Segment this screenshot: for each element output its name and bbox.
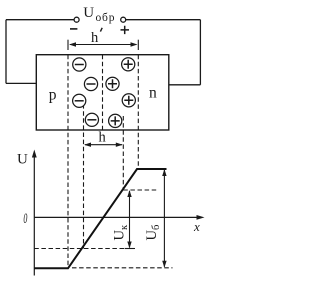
svg-text:U: U bbox=[83, 5, 94, 21]
wire left bottom to p contact bbox=[6, 82, 36, 84]
dashed line h left boundary bbox=[83, 97, 85, 249]
acceptor circle row4 bbox=[85, 113, 98, 126]
svg-text:U: U bbox=[17, 152, 28, 168]
acceptor circle row3 bbox=[73, 94, 86, 107]
dashed line junction centre bbox=[102, 55, 104, 132]
dashed line h right boundary bbox=[122, 116, 124, 190]
acceptor circle row1 bbox=[73, 58, 86, 71]
label Uk rotated bbox=[112, 224, 131, 240]
terminal minus circle bbox=[74, 17, 79, 22]
dimension arrow Uk bbox=[125, 190, 135, 249]
minus sign at left terminal bbox=[70, 28, 77, 30]
dashed line h' right boundary bbox=[137, 55, 139, 169]
semiconductor body rectangle bbox=[36, 55, 169, 130]
wire top-left horizontal bbox=[6, 19, 74, 21]
tick h' left above body bbox=[67, 40, 69, 50]
svg-text:h: h bbox=[99, 130, 107, 146]
svg-text:x: x bbox=[193, 219, 200, 234]
plus sign row4 bbox=[111, 116, 120, 125]
tick h' right above body bbox=[137, 40, 139, 50]
potential curve bbox=[34, 169, 166, 268]
terminal plus circle bbox=[121, 17, 126, 22]
minus sign row2 bbox=[87, 83, 96, 85]
svg-text:n: n bbox=[149, 84, 157, 101]
dimension arrow h bbox=[84, 143, 123, 147]
svg-text:p: p bbox=[49, 87, 57, 104]
dimension arrow h' bbox=[69, 42, 138, 46]
dashed level bottom potential bbox=[72, 267, 173, 269]
dashed level Uk bottom bbox=[34, 248, 135, 250]
tick at Uk arrow bottom bbox=[125, 248, 135, 250]
wire left vertical bbox=[5, 20, 7, 84]
dashed level Uk top bbox=[123, 189, 158, 191]
wire top-right horizontal bbox=[126, 19, 201, 21]
donor circle row2 bbox=[106, 77, 119, 90]
plus sign row2 bbox=[108, 79, 117, 88]
x axis bbox=[34, 215, 204, 220]
plus sign row1 bbox=[124, 60, 133, 69]
minus sign row4 bbox=[87, 119, 96, 121]
dashed line h' left boundary bbox=[67, 55, 69, 268]
donor circle row4 bbox=[109, 114, 122, 127]
U axis bbox=[32, 150, 37, 276]
wire right vertical bbox=[199, 20, 201, 85]
donor circle row1 bbox=[122, 58, 135, 71]
svg-text:h: h bbox=[91, 30, 99, 46]
wire right bottom to n contact bbox=[169, 84, 201, 86]
svg-text:обр: обр bbox=[96, 12, 116, 24]
plus sign at right terminal bbox=[121, 26, 130, 34]
donor circle row3 bbox=[122, 94, 135, 107]
dimension arrow Ub bbox=[162, 169, 166, 268]
plus sign row3 bbox=[124, 96, 133, 105]
acceptor circle row2 bbox=[84, 77, 97, 90]
minus sign row1 bbox=[75, 64, 84, 66]
ionized acceptor circles (minus) bbox=[73, 58, 136, 128]
svg-text:0: 0 bbox=[23, 210, 27, 226]
minus sign row3 bbox=[75, 100, 84, 102]
label Ub rotated bbox=[144, 225, 162, 241]
